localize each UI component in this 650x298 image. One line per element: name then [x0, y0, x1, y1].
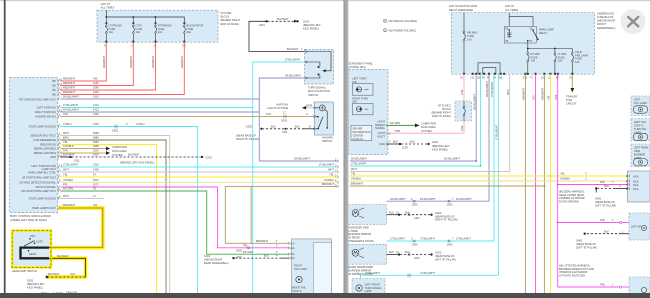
svg-text:OUTAGE DETECTION SIGNAL: OUTAGE DETECTION SIGNAL: [19, 180, 56, 184]
svg-text:(W/ LIFTGATE) HARNESS,: (W/ LIFTGATE) HARNESS,: [559, 263, 591, 267]
svg-text:BRN/WHT: BRN/WHT: [256, 239, 269, 243]
svg-text:C: C: [306, 112, 308, 116]
svg-text:1916: 1916: [93, 95, 99, 99]
svg-text:DK BLU/WHT: DK BLU/WHT: [444, 157, 460, 161]
park lamp relay: [505, 13, 554, 43]
svg-text:10A: 10A: [136, 31, 141, 34]
svg-text:ALL TIMES: ALL TIMES: [505, 8, 518, 12]
label driver mirror: [347, 265, 374, 276]
wire TAN 2507 (serial data) to computer data lines arrow: [61, 149, 127, 157]
svg-text:RIGHT "B" PILLAR): RIGHT "B" PILLAR): [435, 218, 458, 222]
wire RED/WHT 1140: [61, 42, 134, 85]
wire DK BLU/WHT row to margin: [350, 157, 477, 162]
svg-text:5981: 5981: [93, 140, 99, 144]
svg-text:DRIVER: DRIVER: [353, 127, 363, 131]
wire LT BLU/WHT left front turn lamp row: [357, 271, 499, 279]
svg-text:PARK LAMPS VOLT: PARK LAMPS VOLT: [32, 206, 56, 210]
svg-text:1400: 1400: [93, 168, 99, 172]
svg-text:REARVIEW MIRROR: REARVIEW MIRROR: [347, 232, 372, 236]
labels NCA pins tail lamp: [289, 241, 295, 260]
svg-text:1140: 1140: [93, 81, 99, 85]
svg-text:SERIAL DATA BUS: SERIAL DATA BUS: [34, 147, 57, 151]
svg-text:5988: 5988: [93, 144, 99, 148]
svg-text:SIG/BAL: SIG/BAL: [375, 126, 385, 130]
BCM pin labels: [19, 79, 57, 210]
svg-text:LT BLU/WHT: LT BLU/WHT: [390, 237, 405, 241]
svg-text:RELAY ENERGIZED: RELAY ENERGIZED: [449, 8, 473, 12]
svg-text:PARK LAMP RLY CTRL: PARK LAMP RLY CTRL: [28, 170, 56, 174]
svg-text:10A: 10A: [575, 60, 580, 64]
svg-text:IND: IND: [352, 100, 357, 104]
svg-text:PPL: PPL: [243, 243, 248, 247]
label HOT IN IGNITION MAIN RELAY ENERGIZED: [449, 4, 477, 12]
svg-text:INSTRUMENT PANEL: INSTRUMENT PANEL: [347, 61, 374, 65]
svg-text:(NEAR BASE OF: (NEAR BASE OF: [435, 214, 455, 218]
wire DK BLU/WHT 1916 (RH turn sig ind): [61, 95, 260, 99]
svg-text:2140: 2140: [93, 90, 99, 94]
svg-text:VOLT?: VOLT?: [377, 134, 385, 138]
wire PNK ip fuse feed: [460, 74, 464, 101]
label I/P FUSE BLOCK: [221, 11, 241, 26]
svg-text:DATA LINES: DATA LINES: [421, 125, 436, 129]
underhood fuse block box: [451, 13, 594, 74]
svg-text:CORNER OF DRIVER: CORNER OF DRIVER: [559, 196, 585, 200]
fuse LT PRK 10A: [554, 49, 567, 75]
svg-text:BLOCK: BLOCK: [221, 15, 230, 19]
svg-text:NCA: NCA: [633, 180, 639, 184]
svg-text:340: 340: [93, 77, 98, 81]
svg-text:TAN/BLK: TAN/BLK: [63, 144, 74, 148]
turn signal / multi-function switch box: [305, 50, 334, 85]
svg-text:INTERIOR & EXTERIOR: INTERIOR & EXTERIOR: [559, 270, 587, 274]
IPC driver information center box: [351, 125, 372, 140]
svg-text:BRN/WHT: BRN/WHT: [522, 87, 526, 100]
wire YEL vertical: [547, 74, 551, 293]
wire WHT/TAN from lights system (arrow): [267, 103, 313, 111]
label passenger mirror: [347, 225, 374, 243]
svg-text:(BEHIND LEFT: (BEHIND LEFT: [303, 23, 321, 27]
wire LT BLU/WHT down to bottom (left front turn): [252, 108, 254, 294]
label ground G401 second: [576, 238, 597, 249]
svg-text:BLK: BLK: [264, 254, 269, 258]
wire LT BLU/WHT 1315 to margin: [61, 163, 338, 167]
label HAZARD SWITCH: [322, 136, 333, 144]
svg-text:LEFT "B" PILLAR): LEFT "B" PILLAR): [435, 258, 456, 262]
fuse BCK/UP/STOP FUSE 10A: [182, 23, 203, 48]
wire LT BLU/WHT vertical to row: [480, 74, 482, 166]
svg-text:RED/WHT: RED/WHT: [63, 77, 76, 81]
svg-text:BLK/WHT: BLK/WHT: [287, 47, 299, 51]
svg-text:2040: 2040: [93, 86, 99, 90]
svg-text:HOT AT: HOT AT: [505, 4, 515, 8]
label ground G201 (bottom left): [27, 278, 45, 289]
svg-text:(ABOVE RIGHT: (ABOVE RIGHT: [597, 19, 616, 23]
svg-text:HAZARD SW SIG: HAZARD SW SIG: [35, 115, 56, 119]
svg-text:BK: BK: [53, 93, 57, 97]
svg-text:DK BLU/WHT: DK BLU/WHT: [485, 81, 489, 97]
svg-text:G302: G302: [246, 124, 253, 128]
svg-text:(ON FRONT: (ON FRONT: [347, 236, 362, 240]
svg-text:LT BLU: LT BLU: [136, 122, 145, 126]
svg-text:DISPLAY: DISPLAY: [353, 137, 364, 141]
svg-text:LT BLU/WHT: LT BLU/WHT: [420, 237, 435, 241]
svg-text:NCA: NCA: [289, 241, 295, 245]
IPC left turn indicator: [352, 77, 373, 96]
svg-text:LIFTGATE SWITCHES: LIFTGATE SWITCHES: [559, 274, 585, 278]
svg-text:WHT: WHT: [63, 168, 69, 172]
wire LT BLU/WHT vertical (front turn lamp): [495, 74, 499, 275]
svg-text:RIGHT: RIGHT: [294, 263, 302, 267]
label UNDERHOOD FUSE BLOCK: [597, 11, 616, 29]
label ground G401: [595, 196, 616, 207]
svg-text:TAIL LAMP: TAIL LAMP: [294, 267, 307, 271]
note (W/ POWER FOLDING): [383, 28, 416, 32]
svg-text:VIO: VIO: [532, 96, 536, 100]
svg-text:S302: S302: [281, 118, 288, 122]
svg-text:WHT: WHT: [351, 167, 357, 171]
svg-text:DK BLU/WHT: DK BLU/WHT: [456, 197, 472, 201]
svg-text:LEFT TAIL: LEFT TAIL: [634, 120, 647, 124]
svg-text:STOP LAMP VOLTAGE: STOP LAMP VOLTAGE: [29, 197, 57, 201]
svg-text:YEL: YEL: [351, 172, 356, 176]
svg-text:NCA: NCA: [633, 183, 639, 187]
svg-text:BK: BK: [53, 88, 57, 92]
svg-text:BRN/WHT: BRN/WHT: [63, 203, 76, 207]
wire BRN/WHT vertical 1: [522, 74, 526, 293]
svg-text:LR STOP/TURN LAMP VOLT: LR STOP/TURN LAMP VOLT: [22, 175, 56, 179]
svg-text:BRN/WHT: BRN/WHT: [322, 182, 335, 186]
svg-text:DK BLU/WHT: DK BLU/WHT: [351, 157, 367, 161]
svg-text:J117: J117: [70, 272, 76, 276]
svg-text:HEADLAMP SWITCH: HEADLAMP SWITCH: [12, 269, 37, 273]
svg-text:D10: D10: [541, 77, 546, 80]
svg-text:SYSTEM: SYSTEM: [421, 129, 432, 133]
svg-text:NCA: NCA: [289, 256, 295, 260]
I/P fuse block box: [97, 10, 218, 42]
label INSTRUMENT PANEL CLUSTER: [347, 61, 374, 69]
svg-text:2051: 2051: [93, 153, 99, 157]
wire LT BLU/WHT row to margin: [350, 162, 481, 167]
IPC right turn indicator: [352, 97, 373, 115]
svg-text:5986: 5986: [93, 131, 99, 135]
svg-text:PNK: PNK: [554, 94, 558, 100]
svg-text:PASSENGER SIDE: PASSENGER SIDE: [347, 225, 370, 229]
svg-text:BLK/WHT: BLK/WHT: [63, 153, 75, 157]
svg-text:(W/ POWER FOLDING): (W/ POWER FOLDING): [389, 29, 417, 33]
svg-text:G402: G402: [204, 254, 211, 258]
svg-text:VIO/BLK: VIO/BLK: [560, 177, 570, 181]
svg-text:(NEAR BASE OF: (NEAR BASE OF: [435, 254, 455, 258]
wire PNK vertical with branches: [554, 74, 559, 287]
svg-text:TURN SIGNAL/: TURN SIGNAL/: [308, 86, 326, 90]
svg-text:PNL: PNL: [600, 218, 606, 222]
svg-text:DOOR OPENING: DOOR OPENING: [559, 200, 579, 204]
svg-text:SWITCH SIGNAL: SWITCH SIGNAL: [36, 185, 57, 189]
svg-text:RED/WHT: RED/WHT: [63, 90, 76, 94]
svg-text:LT BLU/WHT: LT BLU/WHT: [351, 162, 367, 166]
svg-text:DK BLU/WHT: DK BLU/WHT: [63, 108, 79, 112]
left front turn signal lamp box: [352, 279, 385, 298]
svg-text:BRN: BRN: [63, 136, 69, 140]
svg-text:COMPUTER: COMPUTER: [112, 145, 127, 149]
svg-text:BLK/WHT: BLK/WHT: [48, 272, 60, 276]
passenger mirror wire row DK BLU/WHT: [387, 197, 490, 207]
wire BLK hazard switch to G302: [260, 124, 314, 134]
fuse LT TRN/SIG FUSE 10A: [104, 17, 122, 48]
svg-text:(ABOVE RIGHT: (ABOVE RIGHT: [204, 258, 223, 262]
wire PNK branch 3: [558, 283, 629, 289]
svg-text:J203: J203: [414, 257, 420, 260]
wire LT BLU 1320 (stop lamp voltage): [61, 122, 198, 293]
svg-text:OFF: OFF: [30, 234, 36, 238]
wire PPL vertical 1: [532, 74, 536, 293]
svg-text:END OF DASH): END OF DASH): [221, 22, 240, 26]
svg-text:10A: 10A: [467, 38, 472, 42]
label ground G302 (mirror): [435, 211, 458, 222]
wire BLK/WHT 2051 ground to G201: [61, 153, 204, 163]
svg-text:LT BLU/WHT: LT BLU/WHT: [63, 103, 79, 107]
svg-text:2140: 2140: [93, 112, 99, 116]
svg-text:YEL: YEL: [560, 172, 565, 176]
svg-text:BRN/WHT: BRN/WHT: [351, 182, 364, 186]
svg-text:ALL TIMES: ALL TIMES: [101, 6, 115, 10]
svg-text:(NEAR BASE OF: (NEAR BASE OF: [576, 242, 596, 246]
bottom chrome bar: [0, 293, 650, 298]
svg-text:(W/ MANUAL FOLDING): (W/ MANUAL FOLDING): [389, 19, 418, 23]
fuse AIR BAG 10A: [463, 13, 478, 74]
svg-text:(BUZZER) HARNESS,: (BUZZER) HARNESS,: [559, 189, 585, 193]
svg-text:BRN/WHT: BRN/WHT: [541, 87, 545, 100]
fuse block internal bus loop: [478, 63, 500, 74]
svg-text:J12: J12: [569, 77, 574, 80]
svg-text:TURN SIG: TURN SIG: [634, 127, 646, 131]
svg-text:10A: 10A: [558, 59, 563, 63]
svg-text:BLK: BLK: [604, 229, 609, 233]
svg-text:DK BLU/WHT: DK BLU/WHT: [63, 95, 79, 99]
svg-text:1415: 1415: [93, 108, 99, 112]
svg-text:RR STOP/TURN LAMP VOLT: RR STOP/TURN LAMP VOLT: [22, 189, 57, 193]
fuse RT PRK 10A: [527, 49, 540, 75]
svg-text:BLK: BLK: [393, 140, 398, 144]
svg-text:2000: 2000: [412, 243, 418, 246]
svg-text:G201: G201: [303, 19, 310, 23]
wire WHT vertical pair: [506, 74, 510, 171]
highlighted wire BRN/WHT 421 park lamps volt (yellow trace): [51, 203, 103, 248]
svg-text:KICK PANEL): KICK PANEL): [27, 286, 43, 290]
svg-text:6227: 6227: [93, 183, 99, 187]
svg-text:RED/WHT: RED/WHT: [63, 81, 76, 85]
wire DK GRN data line with arrow: [387, 121, 436, 133]
wire RED/WHT 2040: [61, 42, 156, 90]
wire YEL row margin to right box: [350, 172, 628, 177]
wire TAN 2140 (hazard sw): [61, 110, 314, 122]
svg-text:(NEAR BASE OF: (NEAR BASE OF: [236, 134, 256, 138]
wire BLK tail lamp to G402: [232, 254, 288, 260]
svg-text:PNK: PNK: [460, 125, 464, 131]
svg-text:10A: 10A: [109, 31, 114, 34]
svg-text:DK BLU/WHT: DK BLU/WHT: [390, 197, 406, 201]
wire TAN/BLK 5988 (serial data) to computer data lines arrow: [61, 144, 127, 150]
wire BLK/WHT turn signal switch to G201 (top): [249, 17, 305, 52]
license lamp dashed box: [629, 213, 650, 240]
wire BRN 5980 (low reference): [61, 136, 167, 293]
svg-text:TAIL LAMP: TAIL LAMP: [634, 101, 647, 105]
wire DK BLU/WHT 1415 (right turn sig): [61, 108, 260, 112]
wire DK BLU/WHT vertical to row: [472, 74, 476, 161]
driver mirror wire row LT BLU/WHT: [387, 237, 495, 247]
svg-text:BLK/WHT: BLK/WHT: [128, 153, 140, 157]
svg-text:AIR BAG: AIR BAG: [467, 31, 478, 35]
label ground G402: [204, 254, 229, 265]
wire BLK license to G401: [584, 229, 630, 235]
svg-text:421: 421: [93, 203, 98, 207]
svg-text:BLK: BLK: [389, 210, 394, 214]
wire WHT 5986 (sensor sply): [61, 131, 170, 293]
svg-text:RED/WHT: RED/WHT: [151, 55, 155, 68]
svg-text:CIRCUIT: CIRCUIT: [566, 102, 577, 106]
svg-text:HAZARD: HAZARD: [322, 136, 333, 140]
svg-text:RIGHT "B" PILLAR): RIGHT "B" PILLAR): [236, 137, 259, 141]
svg-text:LEFT "B" PILLAR): LEFT "B" PILLAR): [595, 204, 616, 208]
svg-text:DRIVER SIDE/POWER: DRIVER SIDE/POWER: [347, 265, 374, 269]
wire BLK driver mirror to G202: [387, 250, 433, 260]
svg-text:DK BLU/WHT: DK BLU/WHT: [420, 197, 436, 201]
svg-text:G401: G401: [595, 196, 602, 200]
wire DK BLU/WHT vertical (passenger mirror): [485, 74, 489, 201]
svg-text:KICK PANEL): KICK PANEL): [303, 27, 319, 31]
wire WHT row to margin: [350, 167, 510, 171]
wire WHT 17 (stop lamp voltage short): [61, 194, 105, 198]
svg-text:PPL: PPL: [63, 183, 68, 187]
wire PPL 6227 (switch signal): [61, 183, 282, 253]
wire PNK branch 2 to license lamp box: [558, 218, 646, 224]
svg-text:LIGHTS SYSTEM: LIGHTS SYSTEM: [267, 106, 288, 110]
svg-text:A: A: [311, 103, 313, 107]
lamp box LEFT TAIL LAMP: [631, 96, 650, 116]
wire DK GRN 33 (RR stop/turn): [61, 187, 282, 259]
liftgate lamp dashed box: [629, 277, 650, 298]
svg-text:1414: 1414: [93, 103, 99, 107]
svg-text:BK: BK: [53, 84, 57, 88]
label BODY CONTROL MODULE: [10, 214, 51, 222]
svg-text:RED/WHT: RED/WHT: [63, 86, 76, 90]
label ground G201 (top): [303, 19, 321, 30]
svg-text:RIGHT TAIL: RIGHT TAIL: [292, 285, 307, 289]
svg-text:STOP &: STOP &: [634, 124, 644, 128]
svg-text:SWITCH: SWITCH: [322, 139, 332, 143]
svg-text:J400: J400: [414, 217, 420, 220]
svg-text:LT BLU: LT BLU: [63, 122, 72, 126]
right tail lamp box: [292, 239, 332, 298]
svg-text:LT BLU/WHT: LT BLU/WHT: [490, 81, 494, 97]
svg-text:IND: IND: [352, 80, 357, 84]
svg-text:NEAR LOWER REAR: NEAR LOWER REAR: [559, 193, 584, 197]
svg-text:WHT: WHT: [63, 131, 69, 135]
wire LT BLU/WHT vertical (driver mirror): [490, 74, 494, 241]
svg-text:2507: 2507: [93, 149, 99, 153]
svg-text:PNL: PNL: [600, 283, 606, 287]
svg-text:COMPUTER: COMPUTER: [421, 122, 436, 126]
left page edge bar: [4, 0, 6, 293]
svg-text:I/P FUSE 2: I/P FUSE 2: [438, 103, 451, 107]
svg-text:WHT: WHT: [328, 168, 334, 172]
svg-text:(BEHIND LEFT: (BEHIND LEFT: [432, 144, 450, 148]
svg-text:DK BLU/WHT: DK BLU/WHT: [472, 94, 476, 110]
svg-text:5227: 5227: [93, 178, 99, 182]
lamp box LEFT TAIL STOP & TURN SIG LAMP: [631, 119, 650, 142]
left page margin pin stubs: [335, 157, 338, 188]
svg-text:HOT AT: HOT AT: [101, 2, 111, 6]
svg-text:J201: J201: [74, 158, 80, 162]
fuse block bottom pin numbers: [460, 77, 574, 80]
wire DK BLU/WHT vertical to switch and margin row: [259, 74, 304, 161]
svg-text:LEFT TURN SIG: LEFT TURN SIG: [37, 106, 56, 110]
svg-text:FUSE: FUSE: [467, 34, 474, 38]
svg-text:TURN SIGNAL: TURN SIGNAL: [365, 286, 383, 290]
svg-text:LEFT FRONT: LEFT FRONT: [365, 282, 381, 286]
svg-text:DK GRN: DK GRN: [390, 121, 400, 125]
svg-text:S402: S402: [236, 248, 243, 252]
svg-text:STOP LAMP VOLTAGE: STOP LAMP VOLTAGE: [29, 124, 57, 128]
svg-text:BODY CONTROL MODULE (BCM): BODY CONTROL MODULE (BCM): [10, 214, 51, 218]
svg-text:G202: G202: [435, 251, 442, 255]
label ground G202: [435, 251, 456, 262]
svg-text:TAN: TAN: [63, 112, 68, 116]
label ground G302 (hazard): [236, 124, 259, 141]
svg-text:SENSOR SIG: SENSOR SIG: [40, 143, 56, 147]
right tail lamp pin brackets: [282, 242, 289, 260]
svg-text:NCA: NCA: [289, 246, 295, 250]
svg-text:TOW: TOW: [566, 98, 573, 102]
svg-text:BLK: BLK: [410, 140, 415, 144]
IPC pin labels: [375, 120, 386, 146]
svg-text:PNK: PNK: [460, 89, 464, 95]
svg-text:WHT: WHT: [506, 89, 510, 95]
label ground G201 (right page): [432, 140, 450, 151]
svg-text:FUSE BLOCK: FUSE BLOCK: [597, 15, 614, 19]
svg-text:KICK PANEL): KICK PANEL): [432, 147, 448, 151]
svg-text:BLOCK: BLOCK: [442, 107, 451, 111]
svg-text:SERIAL DATA BUS: SERIAL DATA BUS: [34, 151, 57, 155]
svg-text:RELAY: RELAY: [539, 31, 548, 35]
svg-text:G201: G201: [206, 156, 213, 160]
svg-text:LAMP: LAMP: [634, 156, 641, 160]
wire VIO/BLK row margin to right box: [350, 177, 628, 181]
wire PNK branch to rear lamp box: [558, 180, 628, 184]
svg-text:FENDERWELL): FENDERWELL): [597, 26, 616, 30]
svg-text:SIDE: SIDE: [634, 149, 640, 153]
svg-text:RED/WHT: RED/WHT: [102, 55, 106, 68]
wire BRN/WHT row to margin: [350, 182, 545, 187]
svg-text:2000: 2000: [412, 204, 418, 207]
svg-text:BLK/WHT: BLK/WHT: [57, 254, 69, 258]
svg-text:J219: J219: [402, 145, 408, 149]
svg-text:LEFT "B" PILLAR): LEFT "B" PILLAR): [576, 246, 597, 250]
svg-text:TAN: TAN: [63, 149, 68, 153]
label HOT AT ALL TIMES (right): [505, 4, 518, 12]
svg-text:AUTO: AUTO: [36, 240, 43, 244]
svg-text:LEFT B?: LEFT B?: [631, 225, 642, 229]
svg-text:LEFT: LEFT: [634, 98, 641, 102]
wire BLK to G401: [595, 184, 628, 192]
wire BLK passenger mirror to G302: [387, 210, 433, 220]
top border line: [0, 0, 650, 1]
svg-text:LT BLU/WHT: LT BLU/WHT: [63, 163, 79, 167]
svg-text:RH TURN SIG IND LAMP VOLT: RH TURN SIG IND LAMP VOLT: [19, 97, 56, 101]
svg-text:J302: J302: [282, 131, 288, 134]
svg-text:CENTER: CENTER: [353, 133, 364, 137]
svg-text:LOW REFERENCE: LOW REFERENCE: [33, 138, 56, 142]
